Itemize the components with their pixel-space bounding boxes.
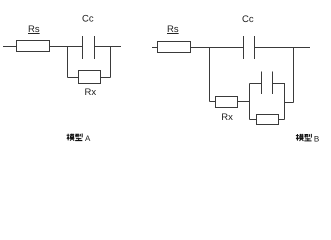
node A left junction bbox=[67, 47, 69, 78]
wire combo to right junction bbox=[285, 102, 294, 104]
svg-text:A: A bbox=[85, 134, 91, 143]
capacitor Cc (model A) bbox=[82, 36, 84, 59]
svg-text:Rs: Rs bbox=[28, 24, 40, 35]
wire B output bbox=[255, 47, 311, 49]
svg-text:Rx: Rx bbox=[85, 87, 97, 98]
wire combo cap branch left bbox=[250, 83, 262, 85]
label 模型 A (model A caption, CJK drawn as strokes) bbox=[67, 134, 83, 141]
wire combo cap branch right bbox=[273, 83, 286, 85]
resistor Rx (model B) bbox=[216, 97, 238, 108]
svg-text:Rs: Rs bbox=[167, 24, 179, 35]
wire combo right vertical bbox=[284, 84, 286, 120]
wire combo left vertical bbox=[249, 84, 251, 120]
node B left junction bbox=[209, 48, 211, 102]
wire B lower branch to Rx bbox=[210, 101, 217, 103]
resistor (model B combo) bbox=[257, 115, 279, 125]
node B right junction bbox=[293, 48, 295, 103]
label 模型 B (model B caption, CJK drawn as strokes) bbox=[296, 134, 312, 141]
wire B Rx to parallel combo bbox=[238, 101, 251, 103]
capacitor (model B combo) bbox=[261, 72, 263, 95]
wire A input bbox=[3, 46, 17, 48]
wire A lower branch left bbox=[68, 77, 79, 79]
wire combo resistor branch right bbox=[278, 119, 285, 121]
型 bbox=[75, 134, 82, 141]
svg-text:B: B bbox=[314, 134, 319, 143]
模 bbox=[67, 134, 70, 141]
resistor Rx (model A) bbox=[79, 71, 101, 84]
svg-text:Cc: Cc bbox=[82, 14, 94, 25]
svg-text:Rx: Rx bbox=[221, 112, 233, 123]
resistor Rs (model B) bbox=[158, 42, 191, 53]
capacitor Cc (model B) bbox=[243, 36, 245, 59]
型 bbox=[304, 134, 311, 141]
resistor Rs (model A) bbox=[17, 41, 50, 52]
wire B Rs to Cc bbox=[191, 47, 244, 49]
wire A Rs to Cc bbox=[50, 46, 84, 48]
模 bbox=[296, 134, 299, 141]
node A right junction bbox=[110, 47, 112, 78]
wire A lower branch right bbox=[100, 77, 111, 79]
wire A output bbox=[95, 46, 122, 48]
svg-text:Cc: Cc bbox=[242, 14, 254, 25]
wire combo resistor branch left bbox=[250, 119, 257, 121]
wire B input bbox=[152, 47, 158, 49]
